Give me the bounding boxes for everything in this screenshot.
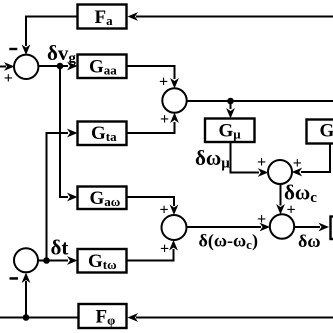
arrowhead into S4 left: [260, 223, 271, 232]
wire node delta-t up to G_ta: [47, 133, 69, 261]
wire F_a feedback input from right edge: [136, 16, 333, 18]
wire G_a_omega output to S5 top: [127, 197, 175, 206]
svg-text:Gc: Gc: [320, 121, 333, 142]
wire F_phi feedback input from right edge: [136, 317, 333, 319]
block F_a: [78, 5, 127, 29]
wire node down into G_mu: [230, 101, 232, 109]
wire G_mu output (delta omega_mu) to S3 left: [231, 142, 260, 173]
wire F_phi output to left edge: [0, 317, 79, 319]
svg-text:+: +: [159, 74, 168, 91]
summing junction S5: [162, 215, 187, 240]
arrowhead into S6 bottom: [22, 273, 31, 284]
wire F_a output to summing junction S1: [26, 17, 78, 47]
svg-text:+: +: [160, 241, 169, 258]
summing junction S1: [14, 55, 38, 79]
node dot delta-t: [43, 257, 50, 264]
summing junction S2: [162, 88, 186, 112]
svg-text:δω: δω: [298, 231, 321, 251]
arrowhead into S5 top: [170, 205, 179, 216]
arrowhead into G_t_omega: [67, 256, 78, 265]
arrowhead into F_a: [128, 12, 139, 21]
arrowhead into S2 top: [170, 78, 179, 89]
svg-text:+: +: [160, 111, 169, 128]
arrowhead into G_aa: [67, 62, 78, 71]
node dot on F_phi output: [23, 314, 30, 321]
block G right (cut off at edge): [307, 120, 333, 144]
wire node dv_g down to G_a_omega: [60, 66, 68, 197]
node dot dv_g: [57, 63, 64, 70]
node dot on S2 output: [227, 98, 234, 105]
arrowhead into delta-omega box: [319, 223, 330, 232]
block G_aa: [78, 55, 127, 79]
arrowhead into G_ta: [67, 129, 78, 138]
wire right G box down to S3 right: [301, 144, 330, 173]
wire feedback up into S6 bottom: [25, 281, 27, 318]
svg-text:+: +: [286, 202, 295, 219]
wire S4 output to delta-omega box: [294, 226, 320, 228]
block G_mu: [205, 119, 255, 143]
sign minus at S6: [10, 277, 19, 280]
wire G_ta output to S2 bottom: [127, 122, 175, 133]
arrowhead into G_a_omega: [67, 193, 78, 202]
wire S1 output to G_aa: [38, 65, 68, 67]
wire input to S1 from left: [0, 66, 6, 68]
block G_ta: [78, 122, 127, 146]
block delta-omega output (cut off at edge): [331, 217, 333, 240]
arrowhead into S2 bottom: [170, 113, 179, 124]
svg-text:+: +: [159, 202, 168, 219]
block G_t_omega: [78, 249, 127, 273]
arrowhead into G_mu top: [226, 108, 235, 119]
arrowhead into S3 right: [292, 168, 303, 177]
svg-text:+: +: [4, 70, 13, 87]
arrowhead into S5 bottom: [169, 240, 178, 251]
block G_a_omega: [78, 187, 127, 210]
sign minus at S1: [9, 48, 17, 50]
arrowhead into S1 top: [22, 45, 31, 56]
wire S2 output to right edge: [187, 100, 333, 102]
wire G_t_omega output to S5 bottom: [127, 249, 174, 261]
block F_phi: [79, 304, 127, 328]
summing junction S3: [268, 160, 292, 184]
wire S3 output down to S4 top: [280, 184, 282, 206]
summing junction S4: [270, 214, 294, 238]
wire S5 output to S4 left: [187, 226, 262, 228]
svg-text:+: +: [257, 211, 266, 228]
arrowhead into S1 left: [4, 62, 15, 71]
summing junction S6: [14, 248, 38, 272]
arrowhead into S4 top: [276, 204, 285, 215]
arrowhead into S3 left: [258, 168, 269, 177]
svg-text:+: +: [257, 154, 266, 171]
wire G_aa output to S2 top: [127, 66, 175, 79]
wire S6 output to G_t_omega: [38, 260, 68, 262]
arrowhead into F_phi: [128, 313, 139, 322]
svg-text:δt: δt: [51, 236, 69, 260]
svg-text:+: +: [293, 155, 302, 172]
